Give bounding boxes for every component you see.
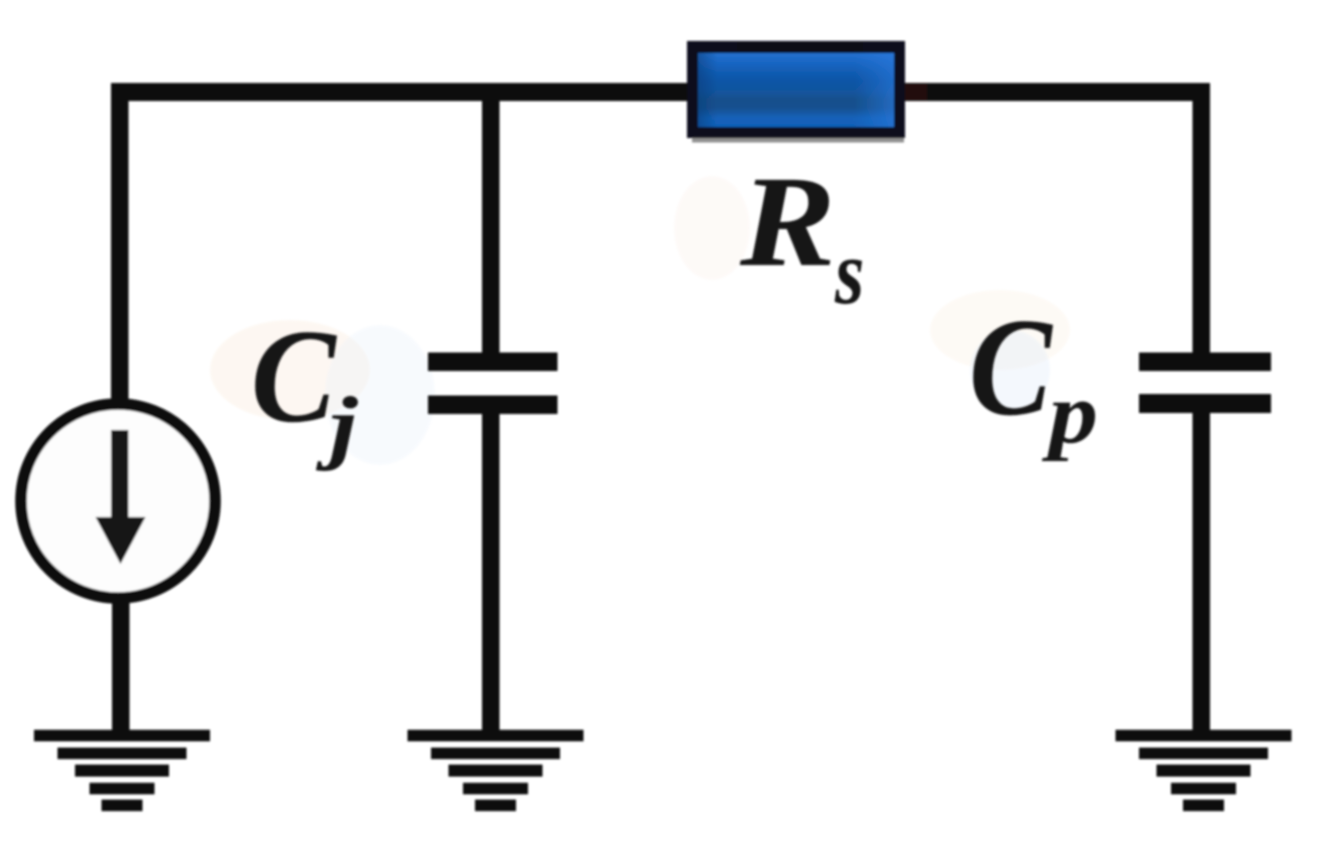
svg-text:p: p	[1041, 366, 1098, 463]
svg-text:C: C	[969, 289, 1053, 445]
svg-text:C: C	[251, 303, 338, 451]
svg-text:R: R	[739, 149, 836, 293]
svg-text:s: s	[834, 222, 864, 324]
